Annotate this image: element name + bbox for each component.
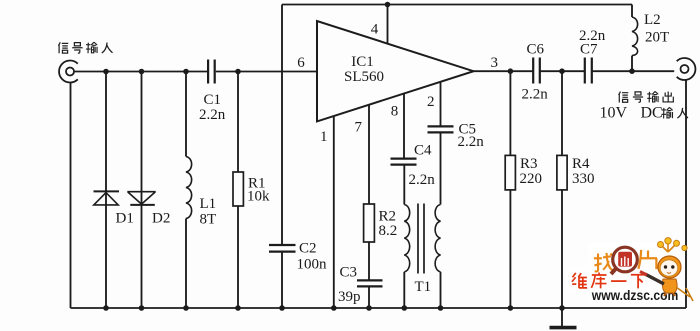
wire: input line right (C1 to pin 6)	[216, 71, 317, 73]
wire: R4 branch bottom	[561, 190, 563, 308]
svg-text:R2: R2	[379, 208, 397, 224]
svg-text:6: 6	[297, 55, 305, 71]
capacitor C7	[585, 58, 592, 84]
resistor R1	[233, 172, 243, 206]
node: input line D1 tap	[103, 69, 109, 75]
svg-text:L1: L1	[200, 196, 217, 212]
diode D1	[94, 191, 120, 205]
node: bus D1	[103, 305, 109, 311]
wire: C5 to T1	[440, 132, 442, 204]
node: output line R3 tap	[508, 68, 514, 74]
wire: L2 bottom stub	[631, 56, 633, 72]
svg-text:C4: C4	[414, 143, 432, 159]
svg-text:100n: 100n	[297, 256, 328, 272]
node: bus R1	[235, 305, 241, 311]
node: output line R4 tap	[559, 68, 565, 74]
wire: C7 to output connector	[592, 70, 674, 72]
capacitor C5	[428, 126, 454, 132]
node: output line L2 tap	[629, 68, 635, 74]
ground symbol	[550, 308, 577, 328]
svg-text:C3: C3	[340, 265, 358, 281]
wire: R3 branch bottom	[509, 190, 511, 308]
wire: pin 2 branch top	[440, 82, 442, 127]
resistor R3	[505, 155, 515, 190]
svg-text:SL560: SL560	[344, 69, 384, 85]
wire: C3 to bus	[368, 286, 370, 308]
node: input line D2 tap	[139, 69, 145, 75]
transformer T1 secondary winding	[435, 205, 440, 272]
svg-text:DC: DC	[641, 105, 663, 122]
node: bus R3	[508, 305, 514, 311]
svg-text:2.2n: 2.2n	[522, 87, 549, 103]
wire: output connector stem	[685, 80, 687, 308]
svg-text:IC1: IC1	[351, 54, 374, 70]
wire: C2 branch vertical	[281, 5, 283, 309]
wire: D2 branch	[141, 72, 143, 309]
diode D2	[127, 192, 155, 205]
svg-text:R3: R3	[520, 156, 538, 172]
svg-text:39p: 39p	[338, 289, 361, 305]
wire: R2 to C3	[368, 242, 370, 280]
resistor R2	[364, 204, 375, 242]
input connector J1	[59, 61, 78, 83]
node: bus C2	[279, 305, 285, 311]
node: bus R4 ground	[559, 305, 565, 311]
svg-text:8T: 8T	[200, 212, 217, 228]
svg-text:20T: 20T	[645, 30, 669, 46]
wire: pin 4 stub	[387, 5, 389, 44]
watermark: magnifier with chip	[611, 247, 637, 274]
node: input line L1 tap	[183, 69, 189, 75]
transformer T1 primary winding	[404, 205, 409, 272]
svg-text:8.2: 8.2	[379, 223, 398, 239]
watermark: weiku yixia red text	[572, 273, 646, 289]
wire: input line left (connector to C1)	[74, 71, 207, 73]
capacitor C2	[269, 245, 296, 252]
svg-text:T1: T1	[415, 279, 432, 295]
svg-text:10V: 10V	[600, 105, 628, 122]
svg-text:2: 2	[427, 94, 435, 110]
svg-text:2.2n: 2.2n	[409, 172, 436, 188]
inductor L2	[632, 17, 638, 56]
svg-text:8: 8	[391, 104, 399, 120]
wire: R1 branch bottom	[237, 206, 239, 308]
capacitor C4	[391, 159, 417, 165]
node: bus D2	[139, 305, 145, 311]
watermark: pian character (chip)	[638, 250, 657, 269]
wire: pin 7 branch top	[368, 105, 370, 204]
node: bus T1 secondary	[438, 305, 444, 311]
wire: output line pin3 to C6	[474, 70, 534, 72]
wire: L2 top stub	[631, 5, 633, 18]
wire: pin 1 branch	[333, 116, 335, 308]
watermark: zhao character (find)	[594, 253, 614, 272]
svg-text:220: 220	[520, 171, 543, 187]
svg-text:C1: C1	[204, 92, 222, 108]
watermark white halo	[566, 242, 683, 302]
svg-text:D2: D2	[152, 211, 170, 227]
capacitor C3	[357, 280, 383, 286]
node: bus T1 primary	[402, 305, 408, 311]
output connector J2	[677, 58, 696, 80]
svg-text:330: 330	[572, 171, 595, 187]
resistor R4	[557, 155, 567, 190]
svg-text:4: 4	[371, 22, 379, 38]
wire: C6 to C7	[540, 70, 585, 72]
wire: T1 primary to bus	[403, 272, 405, 308]
svg-text:2.2n: 2.2n	[458, 134, 485, 150]
svg-text:C2: C2	[299, 241, 317, 257]
svg-text:10k: 10k	[247, 188, 270, 204]
node: top rail pin4 junction	[385, 2, 391, 8]
wire: input connector stem	[70, 82, 72, 308]
wire: L1 branch bottom	[185, 219, 187, 309]
svg-text:C7: C7	[580, 42, 598, 58]
wire: top rail	[282, 4, 632, 6]
wire: R4 branch top	[561, 71, 563, 155]
op-amp U1 triangle	[317, 21, 474, 121]
node: input line R1 tap	[235, 69, 241, 75]
svg-text:1: 1	[320, 129, 328, 145]
node: bus pin1	[331, 305, 337, 311]
capacitor C6	[533, 58, 540, 84]
wire: L1 branch top	[185, 72, 187, 157]
text: signal input label (Chinese)	[58, 42, 112, 53]
inductor L1	[186, 157, 192, 219]
wire: R1 branch top	[237, 72, 239, 173]
wire: R3 branch top	[509, 71, 511, 155]
wire: pin 8 branch top	[403, 93, 405, 158]
wire: D1 branch	[105, 72, 107, 309]
node: bus C3	[366, 305, 372, 311]
text: signal output label (Chinese)	[619, 91, 674, 102]
svg-text:C6: C6	[527, 42, 545, 58]
svg-text:7: 7	[355, 119, 363, 135]
wire: T1 secondary to bus	[440, 272, 442, 308]
svg-text:3: 3	[490, 55, 498, 71]
svg-text:R4: R4	[572, 156, 590, 172]
svg-text:2.2n: 2.2n	[199, 107, 226, 123]
watermark: mascot	[640, 238, 693, 301]
wire: ground bus	[71, 307, 687, 309]
transformer T1 core	[418, 204, 424, 274]
svg-text:D1: D1	[116, 211, 134, 227]
svg-text:L2: L2	[644, 12, 661, 28]
node: bus L1	[183, 305, 189, 311]
wire: C4 to T1	[403, 165, 405, 205]
capacitor C1	[208, 60, 215, 84]
